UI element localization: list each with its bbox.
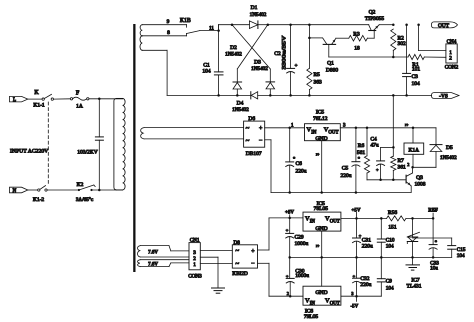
svg-text:OUT: OUT <box>438 23 450 29</box>
svg-text:220u: 220u <box>341 173 352 179</box>
svg-text:Q3: Q3 <box>416 175 423 181</box>
svg-text:363: 363 <box>314 80 323 86</box>
svg-text:R6: R6 <box>358 143 365 149</box>
svg-text:IN: IN <box>310 301 316 306</box>
svg-text:+: + <box>259 126 263 132</box>
svg-text:7.6V: 7.6V <box>148 250 158 255</box>
svg-text:104: 104 <box>457 253 465 259</box>
svg-text:2: 2 <box>407 162 409 167</box>
svg-text:2: 2 <box>287 291 289 296</box>
svg-text:D5: D5 <box>446 145 453 151</box>
svg-text:C3: C3 <box>412 74 419 80</box>
svg-text:7.6V: 7.6V <box>148 262 158 267</box>
svg-text:D880: D880 <box>326 68 338 74</box>
svg-text:KBl2D: KBl2D <box>232 271 248 277</box>
svg-text:+: + <box>295 64 298 69</box>
svg-text:3: 3 <box>351 291 353 296</box>
svg-text:-VS: -VS <box>439 94 448 100</box>
svg-text:r+: r+ <box>405 123 408 127</box>
svg-text:L: L <box>13 98 16 103</box>
svg-text:104: 104 <box>386 285 394 291</box>
svg-text:220u: 220u <box>296 169 307 175</box>
svg-text:1A: 1A <box>76 104 83 110</box>
svg-text:C6: C6 <box>296 161 303 167</box>
svg-text:D1: D1 <box>251 5 258 11</box>
svg-text:1000u: 1000u <box>295 241 309 247</box>
svg-text:C5: C5 <box>342 166 349 172</box>
svg-text:C9: C9 <box>386 279 392 285</box>
svg-text:R7: R7 <box>398 158 405 164</box>
svg-text:OUT: OUT <box>330 301 340 306</box>
svg-text:TL431: TL431 <box>407 284 422 290</box>
svg-text:+: + <box>286 273 289 278</box>
svg-text:+: + <box>286 227 289 232</box>
svg-text:302: 302 <box>398 41 407 47</box>
svg-text:+: + <box>251 249 255 255</box>
svg-text:1008: 1008 <box>415 181 426 187</box>
svg-text:Q1: Q1 <box>327 61 334 67</box>
svg-text:-5V: -5V <box>351 305 359 310</box>
svg-text:CN1: CN1 <box>190 238 200 244</box>
svg-text:R3: R3 <box>353 32 360 38</box>
svg-text:~: ~ <box>246 125 250 133</box>
svg-text:r+: r+ <box>316 244 319 248</box>
svg-text:1000u: 1000u <box>295 273 309 279</box>
svg-text:OUT: OUT <box>328 131 338 136</box>
svg-text:TIP3055: TIP3055 <box>365 16 385 22</box>
svg-text:IN: IN <box>310 220 316 225</box>
svg-text:INPUT AC220V: INPUT AC220V <box>10 148 49 154</box>
svg-text:104: 104 <box>202 68 211 74</box>
svg-text:+: + <box>353 273 356 278</box>
svg-text:−: − <box>251 261 255 267</box>
svg-text:79L05: 79L05 <box>304 314 319 320</box>
svg-text:104: 104 <box>412 81 421 87</box>
svg-text:1N5402: 1N5402 <box>225 52 242 58</box>
svg-text:D8: D8 <box>234 240 241 246</box>
svg-text:18: 18 <box>354 46 360 52</box>
svg-text:1N5402: 1N5402 <box>440 155 457 161</box>
svg-text:K1A: K1A <box>409 147 420 153</box>
svg-text:2: 2 <box>449 56 452 62</box>
svg-text:104: 104 <box>386 244 394 250</box>
svg-text:8: 8 <box>167 30 170 36</box>
svg-text:D3: D3 <box>254 60 261 66</box>
svg-text:*: * <box>358 156 361 161</box>
svg-text:10u: 10u <box>430 265 438 271</box>
svg-text:151: 151 <box>388 225 397 231</box>
svg-text:D2: D2 <box>230 45 237 51</box>
svg-text:3300u/35V: 3300u/35V <box>282 36 288 70</box>
svg-text:R56: R56 <box>388 210 397 216</box>
svg-text:561: 561 <box>357 150 366 156</box>
svg-text:Q2: Q2 <box>369 9 376 15</box>
svg-text:F: F <box>76 90 80 96</box>
svg-text:DB107: DB107 <box>246 151 262 157</box>
svg-text:GND: GND <box>315 290 327 296</box>
svg-text:1N5402: 1N5402 <box>232 107 249 113</box>
svg-text:101: 101 <box>412 67 421 73</box>
svg-text:C2: C2 <box>274 51 281 57</box>
svg-text:N: N <box>13 189 17 194</box>
svg-text:R5: R5 <box>314 72 321 78</box>
svg-text:9: 9 <box>167 19 170 25</box>
svg-text:r+: r+ <box>316 152 319 156</box>
svg-text:1N5402: 1N5402 <box>250 12 267 18</box>
svg-text:IN: IN <box>311 131 317 136</box>
svg-text:*: * <box>435 240 438 245</box>
svg-text:1: 1 <box>193 262 196 268</box>
svg-text:220u: 220u <box>360 282 371 288</box>
svg-text:220u: 220u <box>362 243 373 249</box>
svg-text:D4: D4 <box>237 101 244 107</box>
svg-text:361: 361 <box>398 165 407 171</box>
svg-text:CON3: CON3 <box>188 274 202 280</box>
svg-text:C4: C4 <box>370 136 377 142</box>
svg-text:K1B: K1B <box>180 18 191 24</box>
svg-text:47u: 47u <box>370 143 379 149</box>
svg-text:K: K <box>34 90 39 96</box>
svg-text:D6: D6 <box>248 116 255 122</box>
svg-text:K2: K2 <box>77 182 84 188</box>
svg-text:REF: REF <box>428 207 438 213</box>
svg-text:CN4: CN4 <box>447 39 457 45</box>
svg-text:~: ~ <box>235 260 239 268</box>
svg-text:+: + <box>376 167 379 172</box>
svg-text:~: ~ <box>246 137 250 145</box>
svg-text:K1-1: K1-1 <box>33 103 45 109</box>
svg-text:78L05: 78L05 <box>314 206 329 212</box>
svg-text:IC5: IC5 <box>316 110 325 116</box>
svg-text:CON2: CON2 <box>445 64 459 70</box>
svg-text:1N5402: 1N5402 <box>251 66 268 72</box>
svg-text:C29: C29 <box>295 235 304 241</box>
svg-text:~: ~ <box>235 247 239 255</box>
svg-text:3A/65°c: 3A/65°c <box>76 196 94 203</box>
svg-text:K1-2: K1-2 <box>33 197 45 203</box>
svg-text:OUT: OUT <box>330 220 340 225</box>
svg-text:−: − <box>259 138 263 144</box>
svg-text:11: 11 <box>209 26 214 31</box>
svg-text:78L12: 78L12 <box>313 116 328 122</box>
svg-text:103/2KV: 103/2KV <box>77 150 98 156</box>
